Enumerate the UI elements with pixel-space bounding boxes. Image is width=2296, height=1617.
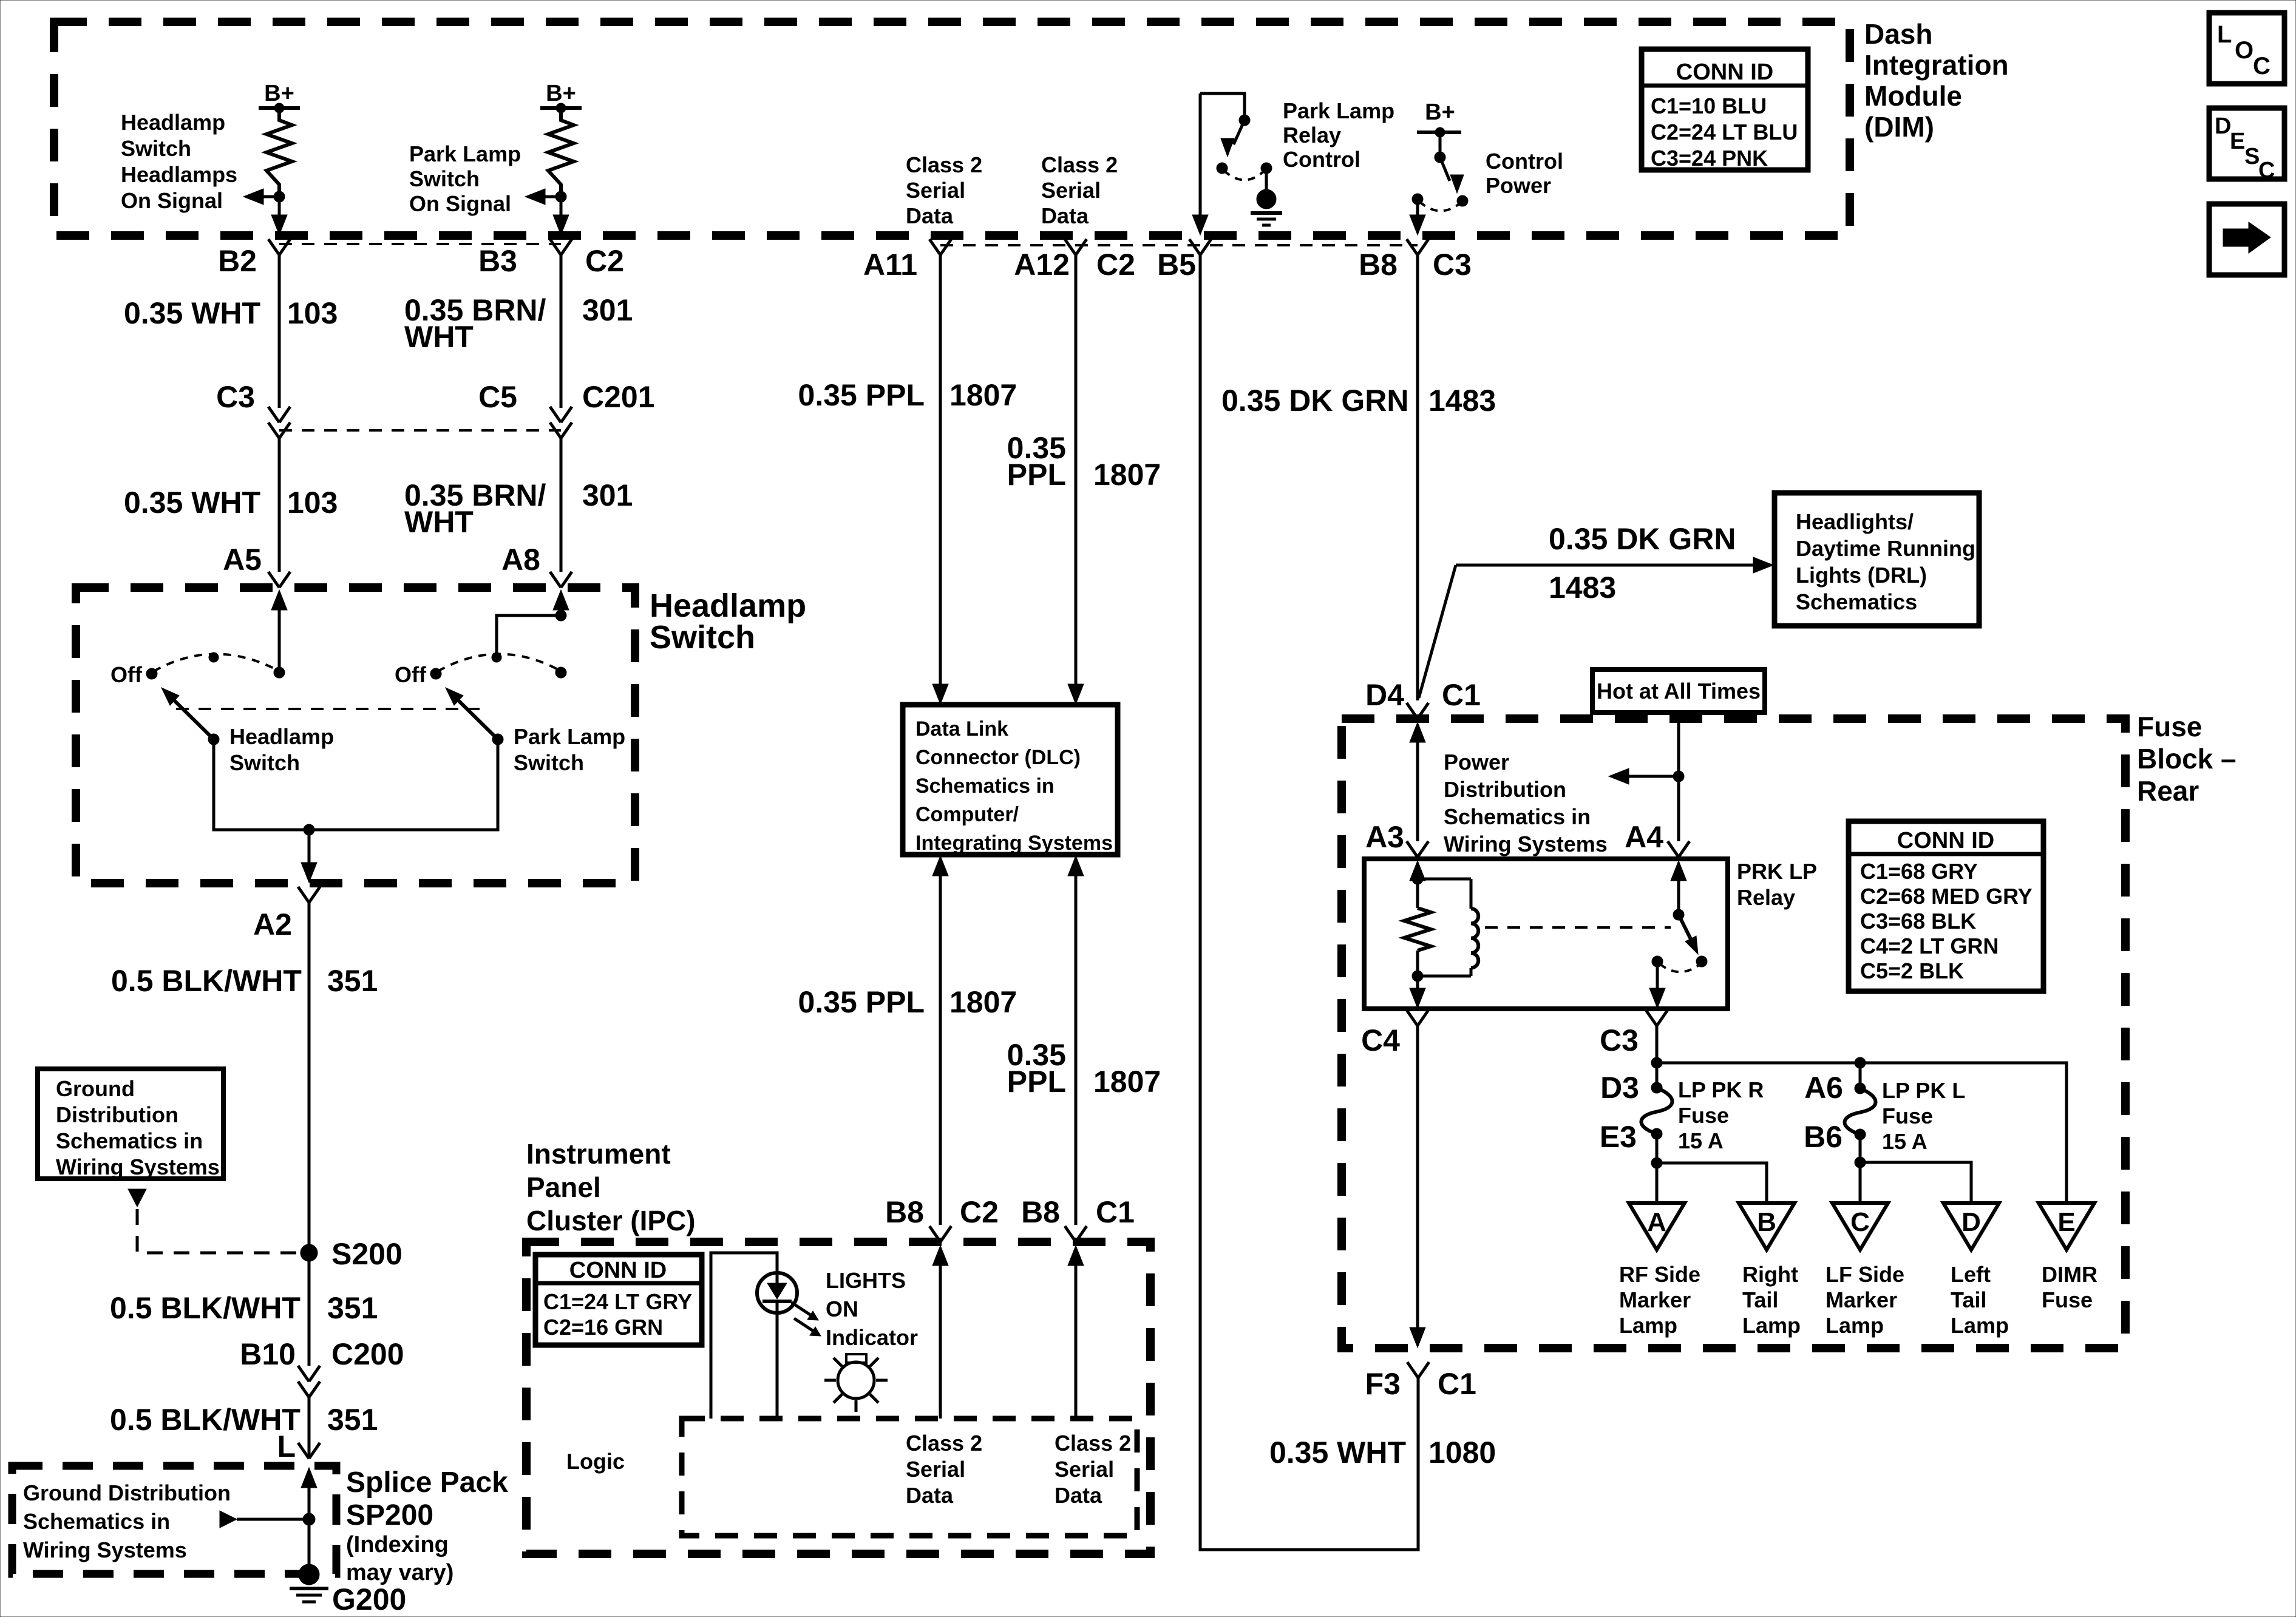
svg-text:WHT: WHT — [404, 320, 474, 354]
svg-text:C200: C200 — [331, 1337, 404, 1371]
wire 103 seg2 — [278, 438, 281, 572]
in-line connector C200 — [298, 1366, 320, 1381]
svg-text:Marker: Marker — [1826, 1287, 1897, 1312]
svg-text:CONN ID: CONN ID — [1676, 59, 1773, 85]
svg-text:A6: A6 — [1804, 1071, 1843, 1105]
svg-text:Class 2: Class 2 — [906, 152, 982, 177]
splice node S200 — [301, 1237, 402, 1271]
svg-text:B8: B8 — [1021, 1195, 1060, 1229]
label: Park Lamp Relay Control — [1283, 98, 1394, 172]
wire: A8 to park switch middle contact — [497, 610, 566, 653]
logic dashed sub-box — [682, 1419, 1137, 1536]
Splice Pack SP200 dashed box — [12, 1466, 336, 1574]
svg-text:Cluster (IPC): Cluster (IPC) — [526, 1205, 696, 1236]
label 0.5 BLK/WHT 351 (2) — [110, 1291, 378, 1325]
svg-text:Right: Right — [1742, 1262, 1798, 1287]
in-line connector C201 left — [268, 407, 290, 422]
svg-text:Logic: Logic — [566, 1449, 625, 1474]
label 0.35 BRN/WHT 301 (2) — [404, 478, 633, 539]
IPC CONN ID table — [535, 1255, 702, 1345]
label: Control Power — [1486, 149, 1563, 198]
label: Park Lamp Switch On Signal — [409, 141, 521, 216]
LOC legend box — [2209, 13, 2284, 84]
svg-text:Class 2: Class 2 — [1041, 152, 1118, 177]
label 0.35 PPL 1807 (mid stacked) — [1007, 1038, 1161, 1099]
node D: Left Tail Lamp — [1943, 1203, 1999, 1250]
dashed connector line C201 — [279, 429, 561, 432]
dashed connector line A11-B8 — [940, 244, 1418, 246]
svg-text:G200: G200 — [332, 1582, 406, 1616]
svg-text:C5=2 BLK: C5=2 BLK — [1860, 958, 1964, 983]
svg-text:Block –: Block – — [2137, 743, 2237, 775]
ground symbol (park lamp relay control) — [1251, 168, 1282, 225]
connector A4 — [1668, 841, 1690, 857]
node C: LF Side Marker Lamp — [1832, 1203, 1888, 1250]
svg-text:0.35 DK GRN: 0.35 DK GRN — [1221, 384, 1408, 418]
label: LF Side Marker Lamp — [1826, 1262, 1904, 1338]
label: Headlamp Switch Headlamps On Signal — [121, 110, 237, 213]
svg-text:Wiring Systems: Wiring Systems — [23, 1537, 187, 1562]
svg-text:Schematics in: Schematics in — [1444, 804, 1591, 829]
svg-text:C1: C1 — [1096, 1195, 1135, 1229]
connector A2 — [298, 887, 320, 903]
connector B8/C3 (DIM) — [1407, 239, 1428, 255]
relay switch output with down arrow — [1649, 965, 1665, 1008]
LED emission arrows — [792, 1303, 821, 1336]
wire: control power to DIM edge — [1410, 202, 1425, 235]
svg-text:Serial: Serial — [906, 178, 965, 203]
svg-text:O: O — [2235, 37, 2254, 64]
reference box: Ground Distribution Schematics — [38, 1069, 223, 1179]
switch: Headlamp Switch — [146, 653, 285, 745]
svg-text:C2=68 MED GRY: C2=68 MED GRY — [1860, 884, 2033, 909]
svg-text:1807: 1807 — [949, 985, 1017, 1019]
svg-text:103: 103 — [287, 296, 338, 330]
svg-text:D: D — [2215, 114, 2231, 139]
svg-text:Hot at All Times: Hot at All Times — [1597, 679, 1761, 703]
label: Class 2 Serial Data (A11) — [906, 152, 982, 228]
in-line connector C201 right — [550, 407, 572, 422]
svg-text:C2=16 GRN: C2=16 GRN — [543, 1315, 663, 1340]
svg-text:Indicator: Indicator — [826, 1325, 918, 1350]
label 0.5 BLK/WHT 351 — [111, 964, 378, 998]
svg-text:C1: C1 — [1442, 678, 1481, 712]
fuse LP PK R (D3-E3) — [1641, 1082, 1672, 1139]
DIM CONN ID table — [1642, 49, 1808, 171]
svg-text:Headlamp: Headlamp — [121, 110, 225, 135]
svg-text:351: 351 — [327, 1291, 378, 1325]
label: Class 2 Serial Data (IPC left) — [906, 1431, 982, 1508]
svg-text:Off: Off — [110, 662, 143, 687]
svg-text:A4: A4 — [1625, 820, 1663, 854]
svg-text:351: 351 — [327, 964, 378, 998]
reference box: Data Link Connector (DLC) — [903, 705, 1118, 855]
svg-text:Data Link: Data Link — [915, 717, 1008, 741]
wire: park lamp signal to DIM edge — [553, 197, 569, 235]
svg-text:C3: C3 — [1433, 248, 1472, 282]
svg-text:ON: ON — [826, 1297, 858, 1321]
svg-text:CONN ID: CONN ID — [1897, 828, 1994, 853]
svg-text:D3: D3 — [1600, 1071, 1639, 1105]
svg-text:B+: B+ — [1425, 100, 1455, 125]
svg-text:Splice Pack: Splice Pack — [346, 1466, 508, 1499]
svg-text:Daytime Running: Daytime Running — [1796, 536, 1975, 561]
svg-text:Tail: Tail — [1742, 1287, 1778, 1312]
label: Splice Pack SP200 (Indexing may vary) — [346, 1466, 508, 1585]
svg-text:E3: E3 — [1600, 1120, 1637, 1154]
svg-text:C: C — [2258, 158, 2275, 183]
svg-text:On Signal: On Signal — [121, 188, 223, 213]
svg-text:Lights (DRL): Lights (DRL) — [1796, 563, 1927, 588]
label: Power Distribution Schematics in Wiring Systems — [1444, 750, 1608, 856]
module title: Headlamp Switch — [650, 588, 806, 656]
svg-text:Park Lamp: Park Lamp — [514, 724, 625, 749]
svg-text:PRK LP: PRK LP — [1737, 859, 1817, 884]
wire 1080: B5 down/across to F3 — [1200, 255, 1418, 1550]
svg-text:B5: B5 — [1157, 248, 1196, 282]
module title: Fuse Block - Rear — [2137, 711, 2237, 807]
svg-text:A8: A8 — [501, 543, 540, 577]
svg-text:(Indexing: (Indexing — [346, 1532, 449, 1558]
wire: branch to DRL schematics — [1419, 557, 1773, 698]
label: LIGHTS ON Indicator — [826, 1268, 918, 1350]
svg-text:LP PK R: LP PK R — [1678, 1077, 1764, 1102]
dashed mechanical link — [176, 708, 480, 710]
svg-text:B8: B8 — [1359, 248, 1398, 282]
svg-text:Switch: Switch — [121, 136, 191, 161]
relay actuation dashed link — [1485, 926, 1671, 929]
label: Right Tail Lamp — [1742, 1262, 1801, 1338]
label: Park Lamp Switch lever — [514, 724, 625, 775]
node B: Right Tail Lamp — [1739, 1203, 1795, 1250]
svg-text:A12: A12 — [1014, 248, 1070, 282]
svg-text:PPL: PPL — [1007, 458, 1066, 492]
svg-text:0.35 PPL: 0.35 PPL — [798, 985, 925, 1019]
next-page arrow box — [2209, 204, 2284, 275]
svg-text:Headlamps: Headlamps — [121, 162, 237, 187]
svg-text:C1=24 LT GRY: C1=24 LT GRY — [543, 1289, 692, 1314]
label 0.35 WHT 103 — [124, 296, 338, 330]
svg-text:Class 2: Class 2 — [1055, 1431, 1131, 1456]
svg-text:Power: Power — [1444, 750, 1509, 775]
svg-text:B+: B+ — [546, 81, 576, 106]
fuse block CONN ID table — [1849, 821, 2043, 991]
svg-text:0.35 WHT: 0.35 WHT — [124, 486, 260, 520]
svg-text:Headlamp: Headlamp — [229, 724, 334, 749]
svg-text:Power: Power — [1486, 173, 1551, 198]
label: Headlamp Switch lever — [229, 724, 334, 775]
svg-text:LF Side: LF Side — [1826, 1262, 1904, 1287]
connector A8 — [550, 572, 572, 588]
svg-text:1807: 1807 — [1093, 1065, 1161, 1099]
pointer triangle (ground distribution) — [128, 1189, 146, 1207]
wire to logic (left) — [932, 1246, 948, 1419]
svg-text:Lamp: Lamp — [1826, 1313, 1884, 1338]
module title: Instrument Panel Cluster (IPC) — [526, 1138, 696, 1236]
wire 1807 A12 to DLC — [1068, 255, 1084, 704]
svg-text:0.5 BLK/WHT: 0.5 BLK/WHT — [110, 1403, 301, 1437]
svg-text:may vary): may vary) — [346, 1560, 453, 1585]
wire LED to logic — [776, 1313, 779, 1419]
svg-text:Lamp: Lamp — [1619, 1313, 1677, 1338]
connector F3/C1 — [1407, 1362, 1429, 1378]
wire from logic to LED — [711, 1253, 777, 1419]
svg-text:1807: 1807 — [1093, 458, 1161, 492]
svg-text:S: S — [2244, 144, 2260, 169]
dashed reference wire to S200 — [137, 1209, 301, 1253]
svg-text:Fuse: Fuse — [2042, 1287, 2093, 1312]
svg-text:Data: Data — [906, 1483, 954, 1508]
svg-text:E: E — [2057, 1207, 2075, 1237]
svg-text:B2: B2 — [218, 244, 257, 278]
connector A11 — [929, 239, 951, 255]
svg-text:A3: A3 — [1365, 820, 1404, 854]
svg-text:0.35 PPL: 0.35 PPL — [798, 378, 925, 412]
svg-text:Connector (DLC): Connector (DLC) — [915, 746, 1081, 769]
wire inside splice pack with up arrow — [301, 1468, 317, 1572]
svg-text:LP PK L: LP PK L — [1882, 1078, 1965, 1103]
label: Left Tail Lamp — [1951, 1262, 2009, 1338]
svg-text:0.35 DK GRN: 0.35 DK GRN — [1549, 522, 1736, 556]
connector C3 (relay) — [1646, 1010, 1668, 1026]
svg-text:Switch: Switch — [650, 619, 755, 656]
svg-text:WHT: WHT — [404, 505, 474, 539]
label 0.35 PPL 1807 (stacked) — [1007, 431, 1161, 492]
LED indicator symbol — [757, 1273, 797, 1313]
svg-text:B+: B+ — [264, 81, 294, 106]
svg-text:C4: C4 — [1361, 1023, 1400, 1057]
label 0.5 BLK/WHT 351 (3) — [110, 1403, 378, 1437]
wire E3 to outputs — [1651, 1134, 1767, 1203]
svg-text:1080: 1080 — [1428, 1436, 1496, 1470]
svg-text:A5: A5 — [223, 543, 262, 577]
svg-text:SP200: SP200 — [346, 1499, 433, 1531]
svg-text:A2: A2 — [253, 907, 292, 941]
wire Hot at All Times down to A4 — [1677, 713, 1680, 841]
svg-text:S200: S200 — [331, 1237, 402, 1271]
svg-text:CONN ID: CONN ID — [569, 1258, 667, 1283]
Fuse Block - Rear dashed box — [1342, 719, 2125, 1348]
svg-text:Integrating Systems: Integrating Systems — [915, 832, 1113, 855]
switch: Park Lamp Switch — [430, 653, 566, 745]
svg-text:Class 2: Class 2 — [906, 1431, 982, 1456]
svg-text:Instrument: Instrument — [526, 1138, 671, 1170]
svg-text:Relay: Relay — [1737, 885, 1795, 910]
label 0.35 BRN/WHT 301 — [404, 293, 633, 354]
B+ node (park lamp signal) — [540, 81, 582, 113]
relay switch — [1652, 861, 1707, 972]
svg-text:Wiring Systems: Wiring Systems — [1444, 832, 1608, 856]
wire 1807 A11 to DLC — [932, 255, 948, 704]
svg-text:Control: Control — [1283, 147, 1360, 172]
svg-text:Data: Data — [1055, 1483, 1102, 1508]
svg-text:Schematics in: Schematics in — [915, 775, 1055, 798]
svg-text:0.35 WHT: 0.35 WHT — [1269, 1436, 1406, 1470]
svg-text:DIMR: DIMR — [2042, 1262, 2097, 1287]
svg-text:1483: 1483 — [1549, 571, 1616, 605]
svg-text:Schematics in: Schematics in — [56, 1128, 203, 1153]
svg-text:Control: Control — [1486, 149, 1563, 174]
label 0.35 WHT 103 (2) — [124, 486, 338, 520]
svg-text:C2: C2 — [960, 1195, 999, 1229]
wire to logic (right) — [1068, 1246, 1084, 1419]
node + arrow: headlamps on signal — [243, 189, 285, 205]
svg-text:Data: Data — [906, 203, 954, 228]
svg-text:C5: C5 — [478, 380, 517, 414]
reference box: Headlights/DRL Schematics — [1775, 493, 1979, 626]
svg-text:C2: C2 — [1096, 248, 1135, 282]
node E: DIMR Fuse — [2039, 1203, 2094, 1250]
svg-text:15 A: 15 A — [1882, 1129, 1927, 1154]
label: Class 2 Serial Data (A12) — [1041, 152, 1118, 228]
svg-text:(DIM): (DIM) — [1864, 111, 1934, 143]
relay box: PRK LP Relay — [1364, 859, 1728, 1009]
svg-text:C: C — [1850, 1207, 1870, 1237]
svg-text:Rear: Rear — [2137, 775, 2199, 807]
label: RF Side Marker Lamp — [1619, 1262, 1700, 1338]
relay coil — [1418, 879, 1478, 976]
svg-text:15 A: 15 A — [1678, 1128, 1724, 1153]
svg-text:0.5 BLK/WHT: 0.5 BLK/WHT — [111, 964, 302, 998]
svg-text:D: D — [1961, 1207, 1981, 1237]
svg-text:B6: B6 — [1804, 1120, 1843, 1154]
svg-text:Relay: Relay — [1283, 123, 1341, 147]
dashed connector line B2-B3 — [279, 243, 561, 245]
connector B5 — [1189, 239, 1211, 255]
fuse LP PK L (A6-B6) — [1844, 1083, 1875, 1140]
connector C4 — [1407, 1010, 1428, 1026]
label 0.35 PPL 1807 — [798, 378, 1017, 412]
svg-text:0.5 BLK/WHT: 0.5 BLK/WHT — [110, 1291, 301, 1325]
svg-text:D4: D4 — [1365, 678, 1404, 712]
box: Hot at All Times — [1592, 670, 1765, 713]
svg-text:Serial: Serial — [1041, 178, 1101, 203]
svg-text:Panel: Panel — [526, 1171, 601, 1203]
relay coil output with down arrow — [1410, 976, 1425, 1008]
svg-text:C2=24 LT BLU: C2=24 LT BLU — [1651, 120, 1798, 144]
svg-text:Data: Data — [1041, 203, 1089, 228]
svg-text:C4=2 LT GRN: C4=2 LT GRN — [1860, 934, 1999, 958]
wire 1483 B8/C3 down to D4 — [1416, 255, 1419, 700]
svg-text:Lamp: Lamp — [1951, 1313, 2009, 1338]
connector B8/C2 — [929, 1226, 951, 1242]
wire B6 to outputs — [1855, 1134, 1971, 1203]
wire 351 seg3 — [308, 1397, 311, 1459]
wire from A5 with up arrow — [271, 590, 287, 673]
bus junction at C3 — [1651, 1057, 1662, 1068]
svg-text:Fuse: Fuse — [2137, 711, 2202, 742]
svg-text:A: A — [1647, 1207, 1666, 1237]
svg-text:Wiring Systems: Wiring Systems — [56, 1154, 220, 1179]
svg-text:Distribution: Distribution — [56, 1102, 178, 1127]
svg-text:Switch: Switch — [229, 750, 300, 775]
svg-text:Ground: Ground — [56, 1076, 135, 1101]
DESC legend box — [2209, 108, 2284, 183]
wire: B5 to DIM edge — [1192, 93, 1208, 235]
Headlamp Switch dashed box — [76, 588, 635, 883]
svg-text:Schematics: Schematics — [1796, 589, 1917, 614]
svg-text:Marker: Marker — [1619, 1287, 1691, 1312]
wire inside fuse block to A3 — [1410, 722, 1425, 841]
svg-text:On Signal: On Signal — [409, 191, 511, 216]
svg-text:0.35 WHT: 0.35 WHT — [124, 296, 260, 330]
connector B8/C1 — [1065, 1226, 1087, 1242]
svg-text:Module: Module — [1864, 80, 1962, 112]
connector A12 — [1065, 239, 1087, 255]
connector B2 — [268, 239, 290, 255]
svg-text:C201: C201 — [582, 380, 655, 414]
node + arrow: park lamp on signal — [525, 189, 566, 205]
svg-text:C1=10 BLU: C1=10 BLU — [1651, 93, 1767, 118]
svg-text:Fuse: Fuse — [1882, 1103, 1933, 1128]
label 0.35 PPL 1807 (mid) — [798, 985, 1017, 1019]
label 0.35 DK GRN 1483 — [1221, 384, 1496, 418]
svg-text:301: 301 — [582, 478, 633, 512]
label: DIMR Fuse — [2042, 1262, 2097, 1312]
svg-text:Switch: Switch — [514, 750, 584, 775]
svg-text:PPL: PPL — [1007, 1065, 1066, 1099]
wire C3 down to bus — [1656, 1026, 1659, 1088]
svg-text:Integration: Integration — [1864, 49, 2009, 81]
switch: Park Lamp Relay Control — [1200, 93, 1272, 180]
junction node — [304, 824, 314, 835]
wire 301 seg1 — [560, 255, 563, 408]
wire A6 drop — [1859, 1063, 1862, 1088]
svg-text:L: L — [277, 1429, 296, 1463]
svg-text:1807: 1807 — [949, 378, 1017, 412]
svg-text:C1: C1 — [1438, 1367, 1476, 1401]
wire C4 down to F3 — [1410, 1026, 1425, 1347]
svg-text:Switch: Switch — [409, 166, 480, 191]
svg-text:C3: C3 — [1600, 1023, 1639, 1057]
svg-text:C3=68 BLK: C3=68 BLK — [1860, 909, 1976, 934]
B+ node (control power) — [1417, 100, 1461, 137]
ground G200 — [290, 1564, 406, 1616]
B+ node (headlamp signal) — [259, 81, 300, 113]
value label LP PK R Fuse 15 A — [1678, 1077, 1764, 1153]
svg-text:Tail: Tail — [1951, 1287, 1986, 1312]
svg-text:Schematics in: Schematics in — [23, 1509, 170, 1534]
lamp indicator symbol — [824, 1354, 888, 1412]
wire: headlamp signal to DIM edge — [271, 197, 287, 235]
svg-text:F3: F3 — [1365, 1367, 1401, 1401]
connector B3/C2 — [550, 239, 572, 255]
svg-text:Headlights/: Headlights/ — [1796, 509, 1914, 534]
svg-text:B3: B3 — [478, 244, 517, 278]
connector D4/C1 — [1407, 703, 1428, 719]
svg-text:Park Lamp: Park Lamp — [409, 141, 521, 166]
resistor (park lamp on signal pull-up) — [548, 108, 574, 197]
wire 103 seg1 — [278, 255, 281, 408]
svg-text:C3=24 PNK: C3=24 PNK — [1651, 146, 1768, 171]
label 0.35 WHT 1080 — [1269, 1436, 1496, 1470]
svg-text:RF Side: RF Side — [1619, 1262, 1700, 1287]
junction + arrow to power distribution — [1609, 768, 1684, 784]
node A: RF Side Marker Lamp — [1629, 1203, 1685, 1250]
svg-text:B8: B8 — [885, 1195, 924, 1229]
svg-text:Dash: Dash — [1864, 18, 1932, 50]
svg-text:351: 351 — [327, 1403, 378, 1437]
svg-text:Fuse: Fuse — [1678, 1103, 1729, 1128]
svg-text:Headlamp: Headlamp — [650, 588, 806, 624]
svg-text:C3: C3 — [216, 380, 255, 414]
svg-text:LIGHTS: LIGHTS — [826, 1268, 906, 1293]
svg-text:C2: C2 — [585, 244, 624, 278]
wire 1807 DLC to IPC (right) — [1068, 856, 1084, 1225]
bus wire to DIMR drop — [1657, 1063, 2067, 1203]
label: Ground Distribution Schematics (splice pack) — [23, 1480, 231, 1562]
resistor (headlamps on signal pull-up) — [267, 108, 292, 197]
